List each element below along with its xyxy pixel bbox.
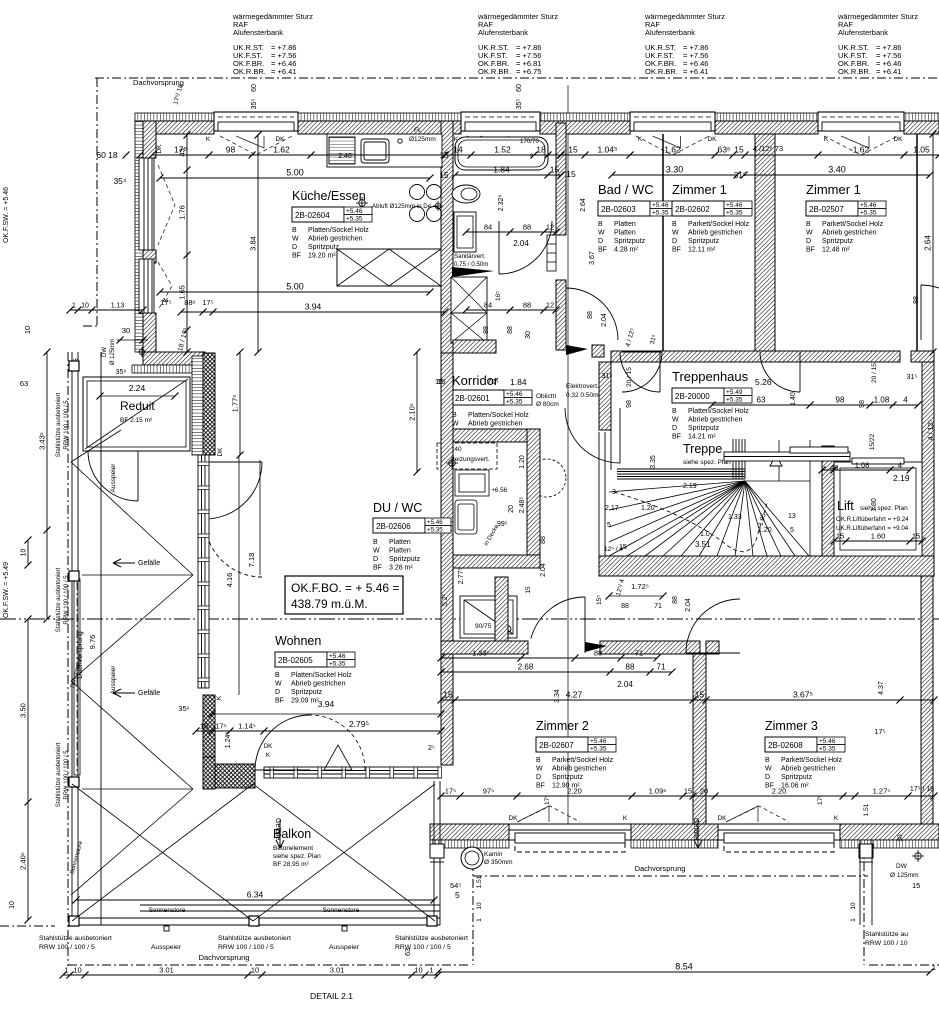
svg-text:18: 18 (200, 722, 208, 731)
terrace inner line (100, 352, 102, 925)
3.84 dim (257, 135, 259, 352)
svg-text:2.40: 2.40 (338, 153, 352, 160)
treppenhaus top dims (712, 404, 918, 406)
room label Wohnen (275, 634, 355, 705)
kitchen island (337, 249, 441, 286)
svg-text:2.48⁵: 2.48⁵ (519, 497, 526, 514)
svg-text:2.64: 2.64 (580, 198, 587, 212)
svg-text:15⁵: 15⁵ (596, 595, 603, 605)
zimmer door arc 2 (531, 597, 585, 639)
svg-text:12: 12 (546, 301, 554, 310)
svg-text:98: 98 (836, 396, 845, 405)
svg-text:Sanitärvert.: Sanitärvert. (454, 253, 486, 260)
svg-text:17⁵ / 18: 17⁵ / 18 (910, 786, 934, 793)
svg-text:1.0: 1.0 (700, 531, 710, 538)
south insulation (631, 840, 718, 848)
svg-text:35⁴: 35⁴ (113, 176, 126, 186)
annotation block x=478 (477, 12, 558, 76)
wall z2-z3 (693, 654, 706, 824)
svg-text:D: D (292, 244, 297, 251)
gefaelle labels balcony rotated (274, 818, 284, 848)
svg-text:17⁵: 17⁵ (202, 298, 213, 307)
corridor door arc to treppenhaus (622, 352, 662, 392)
svg-text:W: W (806, 230, 813, 237)
svg-text:0.75 / 0.50m: 0.75 / 0.50m (454, 261, 488, 268)
right partition (916, 134, 918, 352)
svg-text:2B-02605: 2B-02605 (278, 656, 313, 665)
svg-text:Spritzputz: Spritzputz (552, 774, 584, 781)
svg-text:D: D (536, 774, 541, 781)
svg-text:1.60: 1.60 (871, 532, 886, 541)
svg-text:15/22: 15/22 (869, 433, 876, 450)
svg-text:RRW 100 / 100 / 5: RRW 100 / 100 / 5 (64, 575, 70, 625)
svg-text:DK: DK (893, 136, 903, 143)
svg-text:DW: DW (102, 347, 108, 357)
svg-text:35⁵: 35⁵ (251, 99, 258, 110)
svg-text:W: W (292, 236, 299, 243)
west window 2 (139, 259, 154, 313)
svg-text:D: D (598, 238, 603, 245)
du-wc east wall (527, 429, 540, 555)
balcony diagonals (72, 784, 435, 921)
wohnen dims row (181, 311, 445, 313)
svg-text:63⁶: 63⁶ (718, 145, 731, 155)
svg-text:W: W (373, 548, 380, 555)
svg-text:Zimmer 2: Zimmer 2 (536, 719, 589, 733)
corner column horizontal (215, 764, 255, 788)
svg-text:20: 20 (700, 787, 708, 796)
svg-text:+5.35: +5.35 (726, 210, 743, 217)
svg-text:3.28 m²: 3.28 m² (389, 565, 413, 572)
stair fan treads (609, 440, 810, 556)
svg-text:2B-02507: 2B-02507 (809, 205, 844, 214)
svg-text:10: 10 (73, 966, 81, 975)
svg-text:4 / 12⁵: 4 / 12⁵ (928, 420, 935, 441)
svg-text:Gefälle: Gefälle (692, 818, 699, 840)
svg-text:Platten/Sockel Holz: Platten/Sockel Holz (688, 408, 749, 415)
svg-text:+5.46: +5.46 (506, 391, 523, 398)
svg-text:88⁶: 88⁶ (184, 298, 195, 307)
svg-text:15: 15 (443, 690, 453, 700)
svg-text:Platten: Platten (389, 548, 411, 555)
reduit door arc (88, 451, 138, 501)
svg-text:Abrieb gestrichen: Abrieb gestrichen (688, 230, 743, 237)
reduit room (83, 377, 190, 451)
svg-text:K: K (824, 136, 829, 143)
room label Bad / WC (598, 182, 678, 254)
south window swing 2 (726, 806, 789, 822)
svg-text:3.01: 3.01 (330, 966, 345, 975)
svg-text:1.14⁵: 1.14⁵ (238, 722, 256, 731)
svg-text:Abrieb gestrichen: Abrieb gestrichen (688, 417, 743, 424)
left dim column inner (186, 135, 188, 352)
svg-text:15: 15 (836, 532, 844, 541)
svg-text:B: B (598, 221, 603, 228)
window opening symbol 4 (824, 136, 898, 155)
svg-text:2.04: 2.04 (617, 680, 633, 689)
svg-text:Kamin: Kamin (484, 851, 503, 858)
svg-text:4: 4 (898, 461, 902, 470)
west wall segment (143, 121, 156, 158)
svg-text:Spritzputz: Spritzputz (781, 774, 813, 781)
svg-text:2.04: 2.04 (513, 239, 529, 248)
1 10 1.13 row (70, 309, 143, 311)
wohnen south glazing (264, 767, 441, 778)
roof outline dash-dot top (95, 77, 939, 79)
svg-text:= +6.75: = +6.75 (516, 67, 541, 76)
svg-text:DW: DW (896, 863, 908, 870)
svg-text:48: 48 (830, 463, 838, 472)
bearing wall (755, 134, 775, 352)
svg-text:OK.R.BR.: OK.R.BR. (645, 67, 678, 76)
svg-text:1.84: 1.84 (493, 165, 510, 175)
svg-text:17⁵: 17⁵ (445, 787, 456, 796)
svg-text:FL: FL (414, 127, 422, 134)
svg-text:Spritzputz: Spritzputz (291, 689, 323, 696)
svg-text:88: 88 (523, 301, 531, 310)
svg-text:1.40: 1.40 (790, 392, 797, 406)
svg-text:Stahlstütze ausbetoniert: Stahlstütze ausbetoniert (56, 567, 62, 632)
svg-text:5.26: 5.26 (755, 377, 772, 387)
svg-text:12.11 m²: 12.11 m² (688, 247, 716, 254)
svg-text:4: 4 (903, 396, 908, 405)
svg-text:D: D (672, 425, 677, 432)
svg-text:OK.R.Liftüberfahrt = +9.24: OK.R.Liftüberfahrt = +9.24 (836, 516, 909, 523)
dachvorsprung dash-dot middle bottom (473, 875, 868, 877)
svg-text:2B-02607: 2B-02607 (539, 741, 574, 750)
svg-text:BF 2.15 m²: BF 2.15 m² (120, 417, 153, 424)
svg-text:1.80: 1.80 (871, 498, 878, 512)
svg-text:BF: BF (672, 247, 681, 254)
svg-text:1.09⁶: 1.09⁶ (649, 787, 667, 796)
svg-text:RRW 100 / 100 / 5: RRW 100 / 100 / 5 (39, 944, 95, 951)
svg-text:Ø 125mm: Ø 125mm (110, 339, 116, 365)
svg-text:17⁵: 17⁵ (160, 298, 171, 307)
svg-text:Ø 80cm: Ø 80cm (536, 401, 559, 408)
svg-text:3.43⁵: 3.43⁵ (38, 432, 47, 450)
svg-text:Dachvorsprung: Dachvorsprung (199, 953, 250, 962)
svg-text:Sonnenstore: Sonnenstore (323, 907, 360, 914)
ausspeier marks (164, 926, 169, 931)
svg-text:DK: DK (275, 136, 285, 143)
svg-text:Stahlstütze ausbetoniert: Stahlstütze ausbetoniert (39, 935, 112, 942)
svg-text:0.32 0.50m: 0.32 0.50m (566, 392, 599, 399)
svg-text:Gefälle: Gefälle (138, 560, 160, 567)
door arc Bad/WC from corridor (566, 288, 618, 340)
svg-text:60: 60 (251, 84, 258, 92)
svg-text:D: D (672, 238, 677, 245)
svg-text:Ausspeier: Ausspeier (151, 944, 182, 951)
svg-text:siehe spez. Plan: siehe spez. Plan (273, 853, 321, 860)
svg-text:+5.35: +5.35 (427, 527, 443, 534)
east wall lower (921, 569, 933, 824)
stair direction arrow (770, 455, 782, 466)
svg-text:4.28 m²: 4.28 m² (614, 247, 638, 254)
svg-text:88: 88 (507, 326, 514, 334)
svg-text:8.54: 8.54 (675, 962, 693, 972)
svg-text:1.33: 1.33 (728, 514, 742, 521)
door arc zimmer1a (620, 352, 660, 392)
svg-text:71: 71 (654, 603, 662, 610)
svg-text:Stahlstütze ausbetoniert: Stahlstütze ausbetoniert (395, 935, 468, 942)
svg-text:K: K (638, 136, 643, 143)
svg-text:3.35: 3.35 (650, 455, 657, 469)
svg-text:Alufensterbank: Alufensterbank (233, 28, 283, 37)
dim row 4.27 (441, 699, 934, 701)
svg-text:1.04⁵: 1.04⁵ (597, 145, 617, 155)
svg-text:B: B (672, 408, 677, 415)
svg-text:Treppe: Treppe (683, 442, 722, 456)
svg-text:Elektrovert.: Elektrovert. (566, 383, 599, 390)
svg-text:2.77⁵: 2.77⁵ (458, 568, 465, 585)
door arc zimmer1b (760, 352, 800, 392)
svg-text:1.76: 1.76 (178, 205, 187, 220)
svg-text:RRW 100 / 100 / 5: RRW 100 / 100 / 5 (64, 750, 70, 800)
svg-text:+5.35: +5.35 (726, 397, 743, 404)
svg-text:2B-02601: 2B-02601 (455, 394, 490, 403)
svg-text:1.13: 1.13 (111, 303, 125, 310)
svg-text:2B-02608: 2B-02608 (768, 741, 803, 750)
svg-text:Sonnenstore: Sonnenstore (149, 907, 186, 914)
svg-text:Parkett/Sockel Holz: Parkett/Sockel Holz (781, 757, 843, 764)
svg-text:1.51: 1.51 (476, 875, 483, 888)
annotation block x=233 (232, 12, 313, 76)
room label Treppenhaus (672, 369, 752, 441)
svg-text:Lift: Lift (837, 499, 854, 513)
svg-text:20 / 15: 20 / 15 (626, 367, 633, 387)
svg-text:K: K (206, 136, 211, 143)
svg-text:15: 15 (568, 145, 578, 155)
svg-text:5: 5 (455, 890, 460, 900)
section line vertical (567, 85, 569, 850)
reduit east column (203, 353, 215, 455)
svg-text:31⁵: 31⁵ (602, 373, 613, 380)
svg-text:7.18: 7.18 (247, 553, 256, 568)
svg-text:60 18: 60 18 (96, 150, 118, 160)
svg-text:2.64: 2.64 (924, 235, 933, 251)
svg-text:Alufensterbank: Alufensterbank (838, 28, 888, 37)
svg-text:18: 18 (536, 145, 546, 155)
svg-text:2.19: 2.19 (893, 473, 910, 483)
svg-text:D: D (765, 774, 770, 781)
svg-text:Gefälle: Gefälle (138, 690, 160, 697)
svg-text:4.37: 4.37 (878, 681, 885, 695)
svg-text:Balkon: Balkon (273, 827, 311, 841)
svg-text:13: 13 (788, 513, 796, 520)
svg-text:DU / WC: DU / WC (373, 501, 422, 515)
svg-text:35⁶: 35⁶ (116, 369, 127, 376)
treppe west buildup (599, 430, 611, 556)
roof outline dash-dot left upper (96, 78, 98, 326)
room label Küche/Essen (292, 189, 372, 260)
svg-text:6.34: 6.34 (247, 890, 264, 900)
south wall segment (840, 824, 939, 840)
svg-text:3.67: 3.67 (589, 251, 596, 265)
west wall segment (143, 313, 156, 352)
door arc wohnen south (255, 715, 310, 770)
svg-text:14: 14 (453, 145, 463, 155)
svg-text:Zimmer 1: Zimmer 1 (806, 182, 861, 197)
svg-text:88: 88 (913, 296, 920, 304)
terrace diagonals (71, 430, 193, 895)
bath sink (454, 212, 476, 252)
svg-text:14.21 m²: 14.21 m² (688, 434, 716, 441)
insulation strip (715, 113, 818, 121)
svg-text:Bad / WC: Bad / WC (598, 182, 654, 197)
balcony right posts under building (430, 844, 444, 858)
svg-text:20 / 15: 20 / 15 (871, 363, 878, 383)
room label Zimmer 1 (672, 182, 752, 254)
svg-text:1.20: 1.20 (519, 455, 526, 469)
svg-text:Heizungsvert.: Heizungsvert. (450, 456, 490, 463)
svg-text:+5.35: +5.35 (506, 399, 523, 406)
svg-text:1.20: 1.20 (758, 527, 772, 534)
north wall segment (540, 121, 630, 134)
svg-text:Platten: Platten (614, 221, 636, 228)
svg-text:3.34: 3.34 (554, 689, 561, 703)
insulation strip (135, 113, 214, 121)
svg-text:RRW 100 / 100 / 5: RRW 100 / 100 / 5 (218, 944, 274, 951)
svg-text:DK: DK (717, 815, 727, 822)
svg-text:1: 1 (64, 966, 68, 975)
svg-text:1.20: 1.20 (641, 505, 655, 512)
svg-text:84: 84 (484, 223, 492, 232)
svg-text:4.16: 4.16 (225, 573, 234, 588)
svg-text:1: 1 (932, 963, 936, 972)
treppenhaus west wall (599, 362, 611, 430)
svg-text:1.05: 1.05 (913, 145, 930, 155)
DW bottom right (912, 850, 924, 862)
window opening symbol 2 (467, 136, 534, 155)
bath door threshold wedge (452, 267, 494, 277)
west wall segment (143, 250, 156, 263)
svg-text:5: 5 (607, 522, 611, 529)
bathtub (455, 137, 548, 170)
svg-text:90/75: 90/75 (475, 623, 492, 630)
svg-text:Wohnen: Wohnen (275, 634, 321, 648)
svg-text:3.67⁵: 3.67⁵ (793, 690, 813, 700)
svg-text:Ø125mm: Ø125mm (409, 136, 436, 143)
wohnen west glazing (198, 455, 209, 688)
zimmer3 door arc (686, 599, 740, 653)
svg-text:88: 88 (594, 649, 602, 658)
svg-text:3.94: 3.94 (318, 699, 335, 709)
svg-text:2.79⁵: 2.79⁵ (349, 719, 369, 729)
door wedge zimmer2 (585, 642, 607, 652)
svg-text:RRW 100 / 100 / 5: RRW 100 / 100 / 5 (64, 400, 70, 450)
balcony posts (69, 916, 79, 926)
svg-text:1: 1 (850, 918, 857, 922)
svg-text:Zimmer 1: Zimmer 1 (672, 182, 727, 197)
corridor north wall b (592, 345, 604, 357)
svg-text:2.04: 2.04 (685, 598, 692, 612)
svg-text:15: 15 (566, 169, 576, 179)
svg-text:2B-02602: 2B-02602 (675, 205, 710, 214)
south wall segment (631, 824, 718, 840)
svg-text:+5.46: +5.46 (860, 202, 877, 209)
north wall segment (298, 121, 461, 134)
svg-text:RRW 100 / 10: RRW 100 / 10 (865, 940, 908, 947)
svg-text:88: 88 (626, 663, 635, 672)
svg-text:Parkett/Sockel Holz: Parkett/Sockel Holz (552, 757, 614, 764)
svg-text:DK: DK (217, 447, 224, 457)
svg-text:W: W (672, 417, 679, 424)
wall to reduit (143, 352, 205, 365)
svg-text:5.00: 5.00 (286, 282, 304, 292)
svg-text:Ausspeier: Ausspeier (110, 463, 117, 493)
svg-text:+5.46: +5.46 (819, 738, 836, 745)
window opening symbol 3 (636, 136, 709, 155)
shower (460, 596, 517, 638)
svg-text:B: B (292, 227, 297, 234)
svg-text:1.84: 1.84 (510, 377, 527, 387)
svg-text:30: 30 (525, 331, 532, 339)
roof outline dash-dot bottom left (68, 964, 468, 966)
svg-text:B: B (672, 221, 677, 228)
svg-text:+5.46: +5.46 (652, 202, 669, 209)
svg-text:30: 30 (897, 834, 904, 842)
balcony bottom edge (72, 905, 440, 925)
kitchen counter (327, 134, 442, 167)
sonnenstore rail west (74, 579, 80, 775)
lift door lines (724, 447, 904, 464)
svg-text:15: 15 (440, 171, 449, 180)
heizvert dashed box (437, 443, 497, 469)
svg-text:16⁵: 16⁵ (495, 291, 502, 301)
svg-text:31⁶: 31⁶ (734, 171, 746, 180)
svg-text:1.08: 1.08 (855, 461, 870, 470)
roof outline dash-dot left lower (67, 352, 69, 966)
svg-text:Alufensterbank: Alufensterbank (645, 28, 695, 37)
svg-text:RRW 100 / 100 / 5: RRW 100 / 100 / 5 (395, 944, 451, 951)
svg-text:84: 84 (484, 301, 492, 310)
lift west wall (822, 446, 834, 556)
svg-text:Parkett/Sockel Holz: Parkett/Sockel Holz (688, 221, 750, 228)
svg-text:63: 63 (20, 379, 28, 388)
svg-text:W: W (275, 681, 282, 688)
svg-text:1.52: 1.52 (494, 145, 511, 155)
svg-text:Treppenhaus: Treppenhaus (672, 369, 749, 384)
south insulation (840, 840, 939, 848)
insulation west (135, 121, 143, 352)
svg-text:Reduit: Reduit (120, 399, 155, 413)
left outer dims upper (46, 352, 48, 619)
svg-text:3.50: 3.50 (19, 703, 28, 718)
south insulation (430, 840, 509, 848)
svg-text:3.51: 3.51 (695, 540, 711, 549)
svg-text:W: W (598, 230, 605, 237)
svg-text:88: 88 (540, 536, 547, 544)
terrace west edge (72, 352, 78, 925)
svg-text:98: 98 (859, 400, 866, 408)
svg-text:BF: BF (806, 247, 815, 254)
svg-text:2.04: 2.04 (540, 563, 547, 577)
svg-text:W: W (672, 230, 679, 237)
svg-text:Spritzputz: Spritzputz (308, 244, 340, 251)
svg-text:Spritzputz: Spritzputz (389, 556, 421, 563)
stair landing lines (617, 439, 745, 479)
svg-text:10: 10 (251, 966, 259, 975)
svg-text:B: B (536, 757, 541, 764)
svg-text:Ø 125mm: Ø 125mm (890, 872, 919, 879)
svg-text:29.09 m²: 29.09 m² (291, 698, 319, 705)
window bay 2 (461, 112, 540, 131)
top dim row B (160, 177, 430, 179)
south windows (509, 824, 631, 852)
du-wc fixtures (455, 470, 489, 534)
svg-text:2B-02606: 2B-02606 (376, 522, 411, 531)
svg-text:98: 98 (626, 400, 633, 408)
